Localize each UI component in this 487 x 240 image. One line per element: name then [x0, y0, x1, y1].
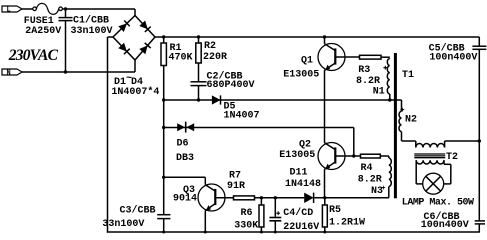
svg-text:E13005: E13005	[279, 150, 315, 161]
svg-text:R6: R6	[241, 208, 253, 219]
svg-text:8.2R: 8.2R	[356, 76, 380, 87]
svg-text:D6: D6	[177, 139, 189, 150]
svg-text:LAMP Max. 50W: LAMP Max. 50W	[402, 198, 474, 209]
svg-text:33n100V: 33n100V	[71, 26, 113, 37]
svg-text:N: N	[7, 70, 11, 78]
svg-text:C3/CBB: C3/CBB	[120, 204, 156, 216]
svg-text:230VAC: 230VAC	[8, 47, 59, 64]
svg-text:+: +	[381, 185, 385, 193]
svg-text:91R: 91R	[227, 181, 245, 192]
svg-text:470K: 470K	[169, 53, 193, 64]
svg-text:R5: R5	[329, 205, 341, 216]
svg-text:9014: 9014	[173, 193, 197, 204]
svg-text:33n100V: 33n100V	[102, 219, 144, 230]
svg-text:1N4007: 1N4007	[224, 110, 260, 121]
svg-text:C1/CBB: C1/CBB	[73, 15, 109, 27]
svg-text:R4: R4	[361, 163, 373, 174]
svg-text:330K: 330K	[234, 221, 258, 232]
svg-text:8.2R: 8.2R	[358, 174, 382, 185]
svg-text:N1: N1	[373, 86, 385, 97]
svg-text:Q1: Q1	[301, 56, 313, 67]
svg-text:L: L	[7, 7, 11, 15]
svg-text:22U16V: 22U16V	[283, 222, 319, 233]
svg-text:C4/CD: C4/CD	[283, 207, 313, 219]
svg-text:1N4148: 1N4148	[285, 179, 321, 190]
svg-text:R3: R3	[358, 65, 370, 76]
svg-text:220R: 220R	[203, 52, 227, 63]
svg-text:T1: T1	[402, 70, 414, 81]
svg-text:DB3: DB3	[176, 153, 194, 164]
svg-text:N2: N2	[405, 115, 417, 126]
svg-text:1N4007*4: 1N4007*4	[111, 86, 159, 98]
svg-text:680P400V: 680P400V	[207, 80, 255, 91]
svg-text:100n400V: 100n400V	[429, 53, 477, 64]
svg-text:E13005: E13005	[283, 70, 319, 81]
svg-text:1.2R1W: 1.2R1W	[329, 218, 365, 229]
svg-text:100n400V: 100n400V	[421, 220, 469, 231]
svg-text:T2: T2	[446, 152, 458, 163]
svg-text:R2: R2	[204, 41, 216, 52]
svg-text:2A250V: 2A250V	[25, 26, 61, 37]
svg-text:D11: D11	[290, 168, 308, 179]
